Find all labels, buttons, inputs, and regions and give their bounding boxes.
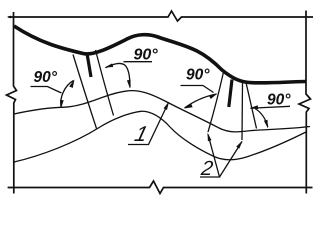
arrowhead: left arc top <box>69 80 74 89</box>
arrowhead: label 1 <box>164 102 169 111</box>
svg-text:90°: 90° <box>186 67 210 84</box>
left 90 deg dimension arc <box>61 81 74 108</box>
arrowhead: label 2 left <box>208 133 212 142</box>
right 90 deg dimension arc <box>255 109 268 128</box>
left core: left side line <box>73 55 97 129</box>
lower layer curve <box>14 111 307 162</box>
right core: right side line <box>246 83 257 129</box>
thick surface curve <box>14 26 306 83</box>
top-middle 90 deg leader underline <box>124 61 153 63</box>
arrowhead: left arc bottom <box>60 100 64 109</box>
arrowhead: middle arc right <box>209 94 218 100</box>
svg-text:90°: 90° <box>134 47 159 64</box>
arrowhead: right arc bottom <box>264 120 268 129</box>
arrowhead: middle arc left <box>184 104 193 109</box>
border left line with break <box>7 12 17 194</box>
left core: right side line <box>96 50 114 116</box>
border bottom line with break <box>8 181 313 194</box>
right core: thick core mark <box>229 80 232 108</box>
arrowhead: top-middle arc left <box>105 63 114 67</box>
top-middle 90 deg dimension arc <box>106 63 131 87</box>
label 2 underline and leaders <box>200 135 220 178</box>
left 90 deg leader underline <box>31 87 62 94</box>
border top line with break <box>8 11 313 21</box>
right core: middle line <box>241 82 244 140</box>
right 90 deg leader underline with arrow <box>251 106 291 108</box>
arrowhead: label 2 right <box>236 141 242 149</box>
svg-text:90°: 90° <box>34 69 58 86</box>
svg-text:90°: 90° <box>267 92 291 109</box>
label 1 underline and leader <box>128 104 168 145</box>
arrowhead: top-middle arc bottom <box>127 80 131 89</box>
label 2 right leader <box>220 142 243 178</box>
middle 90 deg dimension arc <box>185 94 217 108</box>
border right line with break <box>299 11 311 194</box>
right core: left side line <box>208 72 224 132</box>
middle layer curve <box>14 91 310 132</box>
tick at left end of top border <box>7 16 11 19</box>
middle 90 deg leader underline <box>181 86 214 93</box>
arrowhead: right underline arrow <box>250 105 259 109</box>
left core: thick core mark <box>87 54 91 78</box>
